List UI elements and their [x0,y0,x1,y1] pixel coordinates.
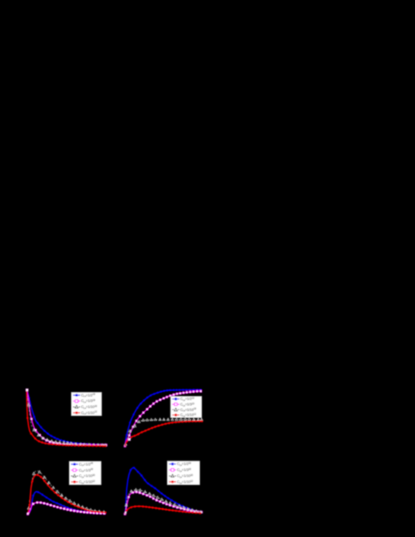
panel BR curve magenta C=1/3^10 [124,491,203,515]
panel TL curve black dashed C=1/10^10 [27,391,107,446]
panel BL curve red C=1/10^12 [28,474,107,514]
panel TL curve magenta C=1/3^10 [26,389,107,446]
panel BR curve black dashed C=1/10^10 [125,489,202,514]
panel TR curve red C=1/10^12 [125,420,203,446]
panel BR curve red C=1/12^12 [125,505,202,514]
panel TR start marker [128,438,130,440]
panel TL curve blue C=1/2^10 [27,390,107,446]
panel BL curve blue C=1/2^10 [28,491,106,514]
panel TR legend [171,396,202,418]
panel BR legend [167,461,200,485]
panel BR curve blue C=1/2^10 [125,467,202,514]
panel TR curve blue C=1/2^10 [125,389,202,446]
panel TR curve magenta C=1/3^10 [124,390,202,447]
panel TL start marker [26,389,28,391]
panel BR start marker [125,512,127,514]
panel BL curve black dashed C=1/10^10 [27,471,106,514]
panel BL legend [69,461,101,485]
panel TL curve red C=1/10^12 [26,391,106,447]
panel TR curve black dashed C=1/10^10 [124,418,202,446]
panel BL curve magenta C=1/3^10 [27,502,106,516]
panel BL start marker [27,513,29,515]
panel TL legend [71,392,101,415]
